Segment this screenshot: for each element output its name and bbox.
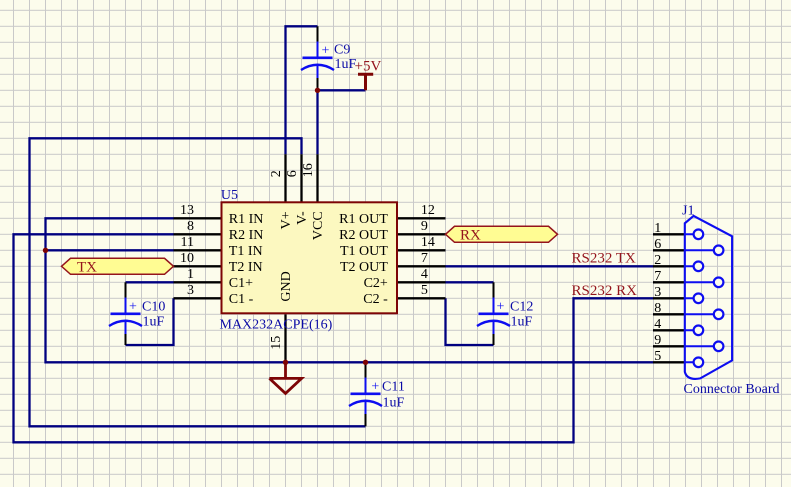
svg-text:+: + bbox=[322, 43, 330, 58]
capacitor C10 bbox=[109, 282, 142, 345]
wire C2- to C12 bottom bbox=[446, 298, 494, 345]
svg-text:R2 IN: R2 IN bbox=[229, 228, 264, 243]
svg-text:1uF: 1uF bbox=[143, 314, 165, 329]
svg-text:C2 -: C2 - bbox=[363, 292, 388, 307]
svg-text:+5V: +5V bbox=[355, 59, 382, 75]
svg-text:J1: J1 bbox=[682, 204, 694, 219]
svg-text:10: 10 bbox=[180, 251, 194, 266]
svg-text:T2 OUT: T2 OUT bbox=[340, 260, 388, 275]
svg-text:1uF: 1uF bbox=[511, 314, 533, 329]
svg-text:16: 16 bbox=[301, 163, 316, 177]
power +5V symbol bbox=[358, 74, 373, 90]
svg-text:RX: RX bbox=[460, 227, 481, 243]
svg-text:2: 2 bbox=[269, 170, 284, 177]
U5 pins top (2,6,16) bbox=[286, 154, 318, 202]
J1 pad circle pin3 bbox=[694, 294, 704, 304]
IC U5 body MAX232ACPE bbox=[222, 202, 398, 313]
connector J1 body bbox=[685, 216, 732, 379]
J1 pad circle pin1 bbox=[694, 230, 704, 240]
svg-text:6: 6 bbox=[285, 170, 300, 177]
svg-text:8: 8 bbox=[187, 219, 194, 234]
J1 pad circle pin5 bbox=[694, 358, 704, 368]
svg-text:3: 3 bbox=[187, 283, 194, 298]
svg-text:U5: U5 bbox=[221, 188, 238, 203]
svg-text:8: 8 bbox=[654, 301, 661, 316]
svg-text:T1 OUT: T1 OUT bbox=[340, 244, 388, 259]
junction dot GND pin15 bbox=[283, 360, 288, 365]
wire C2+ to C12 top bbox=[446, 281, 494, 283]
J1 pad circle pin9 bbox=[714, 342, 724, 352]
port RX bbox=[446, 226, 558, 242]
svg-text:MAX232ACPE(16): MAX232ACPE(16) bbox=[220, 318, 333, 333]
svg-text:7: 7 bbox=[421, 251, 428, 266]
svg-text:C2+: C2+ bbox=[364, 276, 388, 291]
capacitor C9 bbox=[301, 26, 334, 90]
ground symbol bbox=[269, 362, 301, 393]
svg-text:C1+: C1+ bbox=[229, 276, 253, 291]
wire GND branch to T1 IN bbox=[46, 249, 174, 251]
wire C1- to C10 bottom bbox=[126, 298, 174, 345]
wire net RS232 RX (J1 pin3 loop to R2 IN) bbox=[14, 234, 654, 442]
svg-text:3: 3 bbox=[654, 285, 661, 300]
svg-text:RS232 TX: RS232 TX bbox=[572, 251, 636, 267]
svg-text:9: 9 bbox=[654, 333, 661, 348]
svg-text:T1 IN: T1 IN bbox=[229, 244, 263, 259]
junction dot T1IN branch bbox=[43, 248, 48, 253]
svg-text:C10: C10 bbox=[142, 300, 165, 315]
svg-text:TX: TX bbox=[77, 259, 97, 275]
svg-text:1: 1 bbox=[187, 267, 194, 282]
svg-text:R2 OUT: R2 OUT bbox=[339, 228, 388, 243]
svg-text:2: 2 bbox=[654, 253, 661, 268]
svg-text:VCC: VCC bbox=[311, 211, 326, 240]
svg-text:9: 9 bbox=[421, 219, 428, 234]
svg-text:C12: C12 bbox=[510, 300, 533, 315]
svg-text:C11: C11 bbox=[382, 380, 405, 395]
svg-text:11: 11 bbox=[181, 235, 194, 250]
svg-text:1uF: 1uF bbox=[383, 396, 405, 411]
capacitor C11 bbox=[349, 362, 382, 426]
svg-text:5: 5 bbox=[421, 283, 428, 298]
junction dot GND C11 bbox=[363, 360, 368, 365]
junction dot VCC/C9 bbox=[315, 88, 320, 93]
svg-text:V+: V+ bbox=[279, 211, 294, 229]
J1 pad circle pin2 bbox=[694, 262, 704, 272]
svg-text:1: 1 bbox=[654, 221, 661, 236]
wire net VCC (U5 pin16 to C9 bottom and +5V) bbox=[318, 90, 366, 154]
wire C1+ to C10 top bbox=[126, 281, 174, 283]
J1 internal pad lines bbox=[685, 234, 719, 362]
svg-text:7: 7 bbox=[654, 269, 661, 284]
J1 pad circle pin6 bbox=[714, 246, 724, 256]
svg-text:C1 -: C1 - bbox=[229, 292, 254, 307]
svg-text:R1 OUT: R1 OUT bbox=[339, 212, 388, 227]
svg-text:15: 15 bbox=[269, 336, 284, 350]
svg-text:+: + bbox=[371, 379, 379, 394]
svg-text:12: 12 bbox=[421, 203, 435, 218]
capacitor C12 bbox=[477, 282, 510, 345]
svg-text:1uF: 1uF bbox=[335, 57, 357, 72]
svg-text:Connector Board: Connector Board bbox=[684, 382, 780, 397]
svg-text:4: 4 bbox=[654, 317, 661, 332]
J1 pad circle pin8 bbox=[714, 310, 724, 320]
connector J1 pins (1,6,2,7,3,8,4,9,5) bbox=[653, 234, 685, 362]
wire net RS232 TX (T2 OUT to J1 pin2) bbox=[446, 265, 654, 267]
J1 pad circle pin4 bbox=[694, 326, 704, 336]
svg-text:RS232 RX: RS232 RX bbox=[572, 283, 638, 299]
U5 pins right (12,9,14,7,4,5) bbox=[398, 218, 446, 298]
svg-text:V-: V- bbox=[295, 211, 310, 225]
svg-text:13: 13 bbox=[180, 203, 194, 218]
svg-text:14: 14 bbox=[421, 235, 435, 250]
svg-text:+: + bbox=[129, 299, 137, 314]
svg-text:+: + bbox=[497, 299, 505, 314]
svg-text:4: 4 bbox=[421, 267, 428, 282]
J1 pad circle pin7 bbox=[714, 278, 724, 288]
svg-text:C9: C9 bbox=[334, 42, 350, 57]
svg-text:GND: GND bbox=[279, 271, 294, 301]
svg-text:R1 IN: R1 IN bbox=[229, 212, 264, 227]
svg-text:6: 6 bbox=[654, 237, 661, 252]
wire net V+ (U5 pin2 to C9 top) bbox=[286, 26, 318, 154]
wire net V- (U5 pin6 left loop to C11 bottom) bbox=[30, 138, 366, 426]
U5 pin bottom (15) bbox=[284, 314, 286, 362]
svg-text:5: 5 bbox=[654, 349, 661, 364]
wire net GND (R1IN/T1IN to ground rail and J1 pin5) bbox=[46, 218, 654, 362]
svg-text:T2 IN: T2 IN bbox=[229, 260, 263, 275]
port TX bbox=[62, 258, 174, 274]
op-amp U5 pins left (13,8,11,10,1,3) bbox=[174, 218, 222, 298]
